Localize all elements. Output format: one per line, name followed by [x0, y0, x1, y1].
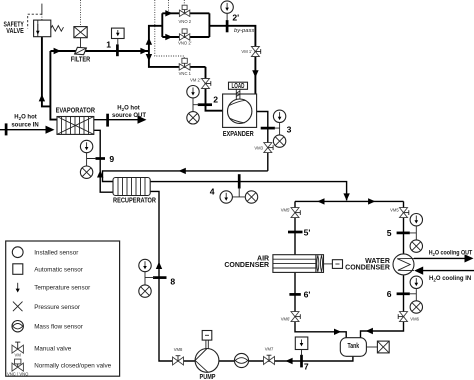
node 9 tick [96, 157, 106, 160]
control line dashed safety valve pilot [28, 14, 42, 28]
svg-text:CONDENSER: CONDENSER [345, 264, 390, 271]
svg-text:source IN: source IN [11, 123, 38, 129]
svg-text:5: 5 [387, 228, 392, 238]
expander LOAD box [229, 82, 248, 99]
svg-text:8: 8 [170, 276, 175, 286]
svg-text:Pressure sensor: Pressure sensor [34, 304, 80, 311]
svg-text:VM5: VM5 [390, 207, 399, 212]
filter automatic pressure sensor box [74, 27, 87, 48]
node 7 tick [300, 355, 303, 368]
safety valve spring [51, 26, 64, 32]
wire air condenser outlet to tank [295, 272, 346, 337]
wire recuperator cold out to evaporator [94, 130, 113, 192]
node 4 sensor stem [233, 188, 246, 197]
node 9 sensor stem [87, 153, 96, 166]
recuperator heat exchanger [113, 178, 150, 196]
svg-text:9: 9 [109, 154, 114, 164]
svg-text:VNO 2: VNO 2 [179, 19, 192, 24]
control line dotted above safety valve [41, 4, 43, 15]
svg-text:EVAPORATOR: EVAPORATOR [56, 107, 95, 114]
node 3 sensor stem [274, 123, 280, 136]
control line dotted above VNO2 branch [168, 0, 170, 12]
svg-text:H2O hot: H2O hot [14, 114, 37, 121]
node 2 sensor stem [193, 98, 199, 111]
valve VM8 manual [173, 356, 184, 365]
node 9 pressure sensor [80, 166, 92, 178]
node 6 sensor stem [409, 288, 416, 302]
valve VM6' manual [291, 312, 300, 322]
svg-text:1: 1 [106, 39, 111, 49]
wire arrow right before tee [140, 48, 147, 54]
legend mass flow sensor [12, 321, 23, 332]
water condenser [393, 254, 414, 275]
wire expander outlet to node 3 and down [252, 112, 268, 171]
node 1 automatic temperature sensor box [112, 28, 125, 45]
svg-text:Tank: Tank [348, 343, 360, 350]
node 3 temperature sensor [273, 110, 285, 122]
legend normally closed/open valve [12, 359, 23, 371]
svg-text:CONDENSER: CONDENSER [224, 262, 269, 269]
node 5 tick [397, 232, 410, 235]
wire evaporator vapor outlet riser [50, 51, 57, 120]
svg-text:H2O hot: H2O hot [117, 106, 140, 113]
wire H2O cooling IN line [418, 270, 474, 272]
wire arrow up node 9 riser [97, 170, 103, 177]
wire hot line to recuperator [103, 171, 268, 182]
wire water condenser branch down [403, 201, 405, 254]
svg-text:source OUT: source OUT [112, 113, 146, 119]
svg-text:4: 4 [210, 186, 215, 196]
svg-text:H2O cooling IN: H2O cooling IN [429, 276, 471, 283]
wire arrow left pump suction [285, 358, 292, 364]
legend box [6, 241, 120, 376]
legend automatic sensor [13, 264, 23, 275]
wire by-pass loop left rail [161, 13, 163, 37]
node 5 pressure sensor [410, 240, 422, 252]
control line dotted above filter pressure sensor [80, 0, 82, 27]
node 5 sensor stem [409, 226, 416, 240]
legend installed sensor [12, 247, 23, 258]
svg-text:Mass flow sensor: Mass flow sensor [34, 324, 83, 331]
svg-text:Manual valve: Manual valve [34, 346, 72, 353]
svg-text:VALVE: VALVE [6, 28, 24, 35]
wire arrow left hot line [179, 168, 186, 174]
svg-text:RECUPERATOR: RECUPERATOR [113, 198, 156, 205]
node 8 sensor stem [145, 272, 155, 286]
wire H2O hot source IN line [0, 129, 50, 131]
node 2 tick [198, 103, 212, 106]
wire tee down to VNC1 branch [149, 51, 206, 67]
svg-text:VM: VM [15, 352, 22, 357]
wire arrow H2O cooling OUT [465, 254, 474, 262]
node 8 temperature sensor [139, 259, 151, 271]
svg-text:7: 7 [304, 361, 309, 371]
svg-text:Installed sensor: Installed sensor [34, 250, 78, 257]
wire arrow right before filter [54, 48, 61, 54]
wire VNC1 branch down to expander inlet [206, 67, 229, 111]
H2O hot IN tick [5, 123, 8, 135]
valve VM3 manual [264, 143, 273, 153]
valve VM5' manual [291, 208, 300, 218]
node 2' temperature sensor [221, 1, 233, 20]
node 2 pressure sensor [187, 112, 199, 124]
svg-text:6': 6' [304, 290, 311, 300]
wire condenser loop top header [295, 200, 404, 202]
svg-text:VM3: VM3 [254, 145, 263, 150]
wire arrow left into tank [366, 328, 373, 334]
wire arrow right header [368, 198, 375, 204]
wire arrow left header [317, 198, 324, 204]
wire arrow up node 8 riser [156, 262, 162, 269]
node 8 pressure sensor [139, 285, 151, 297]
valve VM1' manual [251, 47, 260, 57]
node 9 temperature sensor [80, 140, 92, 152]
svg-text:VNC / VNO: VNC / VNO [7, 371, 29, 376]
mass flow sensor on pump line [234, 353, 248, 367]
wire water condenser outlet to tank [361, 275, 404, 338]
svg-text:VM 2': VM 2' [190, 78, 201, 83]
node 6' tick [289, 293, 300, 296]
wire arrow right bottom branch [165, 34, 172, 40]
wire arrow down condenser feed [343, 193, 349, 200]
wire tee up to by-pass loop [149, 26, 162, 51]
wire by-pass loop right rail [208, 13, 210, 37]
pump P1 [195, 349, 219, 373]
node 2 temperature sensor [187, 86, 199, 98]
wire arrow H2O hot IN [46, 126, 55, 134]
H2O hot OUT tick [106, 114, 109, 127]
tank [340, 338, 366, 357]
filter F1 [75, 47, 87, 54]
svg-text:VM5': VM5' [281, 207, 291, 212]
valve VNC1 (normally closed) [179, 58, 190, 70]
svg-text:Temperature sensor: Temperature sensor [34, 285, 90, 292]
wire arrow up to loop [146, 38, 152, 45]
pump motor [202, 331, 212, 349]
control line dotted above VNO2 actuator [183, 0, 185, 5]
node 3 pressure sensor [273, 135, 285, 147]
wire arrow down by-pass to expander [252, 70, 258, 77]
valve VNO2' (normally open) [179, 29, 189, 40]
wire arrow H2O cooling IN [414, 267, 423, 275]
svg-text:3: 3 [287, 124, 292, 134]
expander U1 [223, 94, 257, 127]
node 5' tick [288, 231, 303, 234]
tank pressure sensor (automatic) [366, 341, 389, 353]
valve VM5 manual [400, 208, 409, 218]
wire arrow right top branch [165, 10, 172, 16]
wire H2O cooling OUT line [414, 257, 469, 259]
svg-text:H2O cooling OUT: H2O cooling OUT [429, 251, 473, 258]
wire air condenser branch down [294, 201, 296, 254]
control line dotted to VNC1 actuator [155, 0, 184, 58]
node 7 automatic temperature sensor box [295, 337, 308, 356]
svg-text:by-pass: by-pass [234, 28, 254, 34]
node 4 temperature sensor [220, 191, 232, 203]
evaporator heat exchanger [57, 117, 94, 135]
valve VNO2 (normally open) [179, 5, 189, 16]
valve VM7 manual [264, 355, 275, 364]
wire loop to node 2' and down past VM1' [209, 26, 255, 94]
safety valve SV body [34, 20, 51, 37]
svg-text:LOAD: LOAD [232, 83, 245, 90]
valve VM2' manual [202, 79, 211, 89]
node 6 tick [397, 292, 410, 295]
wire arrow H2O hot OUT [138, 116, 147, 124]
wire arrow down to VNC1 [146, 54, 152, 61]
svg-text:Normally closed/open valve: Normally closed/open valve [34, 363, 111, 370]
node 1 tick [116, 44, 119, 56]
wire safety valve branch [42, 37, 51, 107]
node 5 temperature sensor [410, 214, 422, 226]
wire arrow right into tank [334, 329, 341, 335]
node 8 tick [153, 276, 167, 279]
wire H2O hot source OUT line [94, 119, 142, 121]
wire arrow up safety branch [39, 94, 45, 101]
node 6 temperature sensor [410, 276, 422, 288]
svg-text:6: 6 [387, 289, 392, 299]
wire by-pass loop top branch [162, 12, 209, 14]
wire filter line [50, 50, 148, 52]
svg-text:VNC 1: VNC 1 [179, 71, 192, 76]
legend manual valve [12, 342, 23, 353]
node 6 pressure sensor [410, 301, 422, 313]
svg-text:FILTER: FILTER [71, 56, 90, 63]
wire node 4 line recuperator to condenser loop [150, 182, 346, 201]
svg-text:VNO 2': VNO 2' [178, 40, 192, 45]
svg-text:VM 1': VM 1' [241, 49, 252, 54]
wire tank bottom outlet [150, 191, 353, 361]
svg-text:VM8: VM8 [174, 347, 183, 352]
svg-text:VM6: VM6 [410, 316, 419, 321]
node 2' tick [226, 20, 229, 32]
valve VM6 manual [398, 312, 407, 322]
svg-text:2: 2 [213, 94, 218, 104]
legend temperature sensor [17, 283, 19, 290]
svg-text:VM6': VM6' [281, 316, 291, 321]
air condenser fan motor [324, 260, 343, 269]
air condenser [273, 255, 324, 273]
wire by-pass loop bottom branch [162, 36, 209, 38]
node 3 tick [261, 127, 275, 130]
svg-text:VM7: VM7 [265, 346, 274, 351]
svg-text:2': 2' [232, 13, 239, 23]
node 4 pressure sensor [245, 191, 257, 203]
svg-text:PUMP: PUMP [200, 374, 216, 380]
legend pressure sensor [13, 302, 23, 312]
svg-text:5': 5' [304, 227, 311, 237]
svg-text:EXPANDER: EXPANDER [223, 131, 254, 138]
node 4 tick [238, 174, 241, 188]
svg-text:Automatic sensor: Automatic sensor [34, 266, 83, 273]
